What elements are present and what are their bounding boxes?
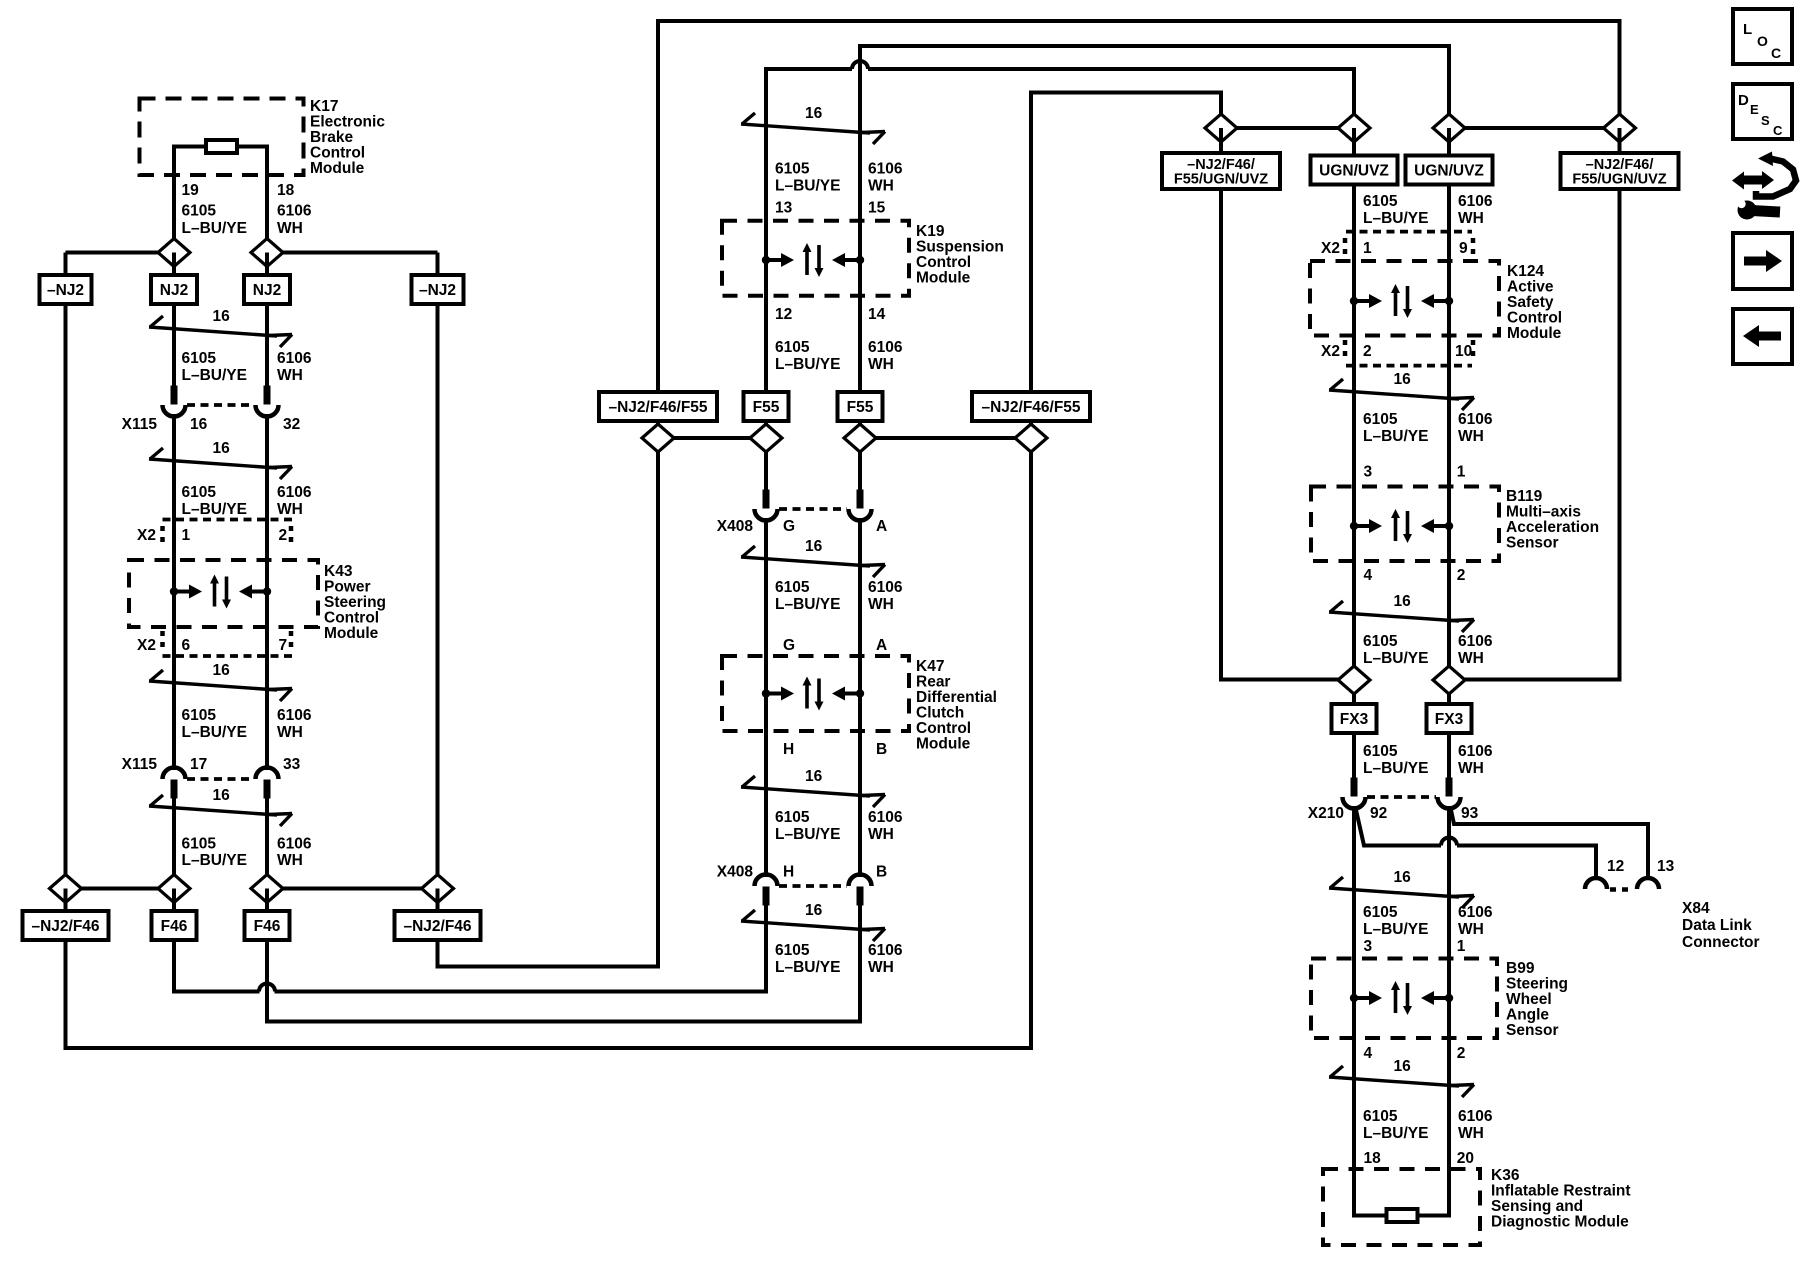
svg-text:16: 16 — [1394, 1058, 1412, 1075]
svg-text:Power: Power — [324, 579, 371, 596]
svg-text:33: 33 — [283, 756, 301, 773]
svg-text:2: 2 — [279, 527, 288, 544]
connector X408 pin A — [849, 490, 872, 521]
wire box stub F — [764, 421, 768, 502]
svg-text:Differential: Differential — [916, 689, 997, 706]
wire 6105 through K43 — [172, 560, 176, 627]
svg-text:F55: F55 — [847, 399, 874, 416]
svg-text:UGN/UVZ: UGN/UVZ — [1414, 163, 1484, 180]
wire label 6106 WH — [277, 484, 312, 518]
svg-text:17: 17 — [190, 756, 207, 773]
wire label 6105 L-BU/YE — [182, 836, 247, 870]
svg-text:Active: Active — [1507, 279, 1554, 296]
pin 3 label — [1364, 938, 1373, 955]
wire label 6106 WH — [277, 350, 312, 384]
svg-text:Module: Module — [1507, 325, 1562, 342]
wire stub to -NJ2/F46 right — [436, 889, 440, 913]
svg-text:6106: 6106 — [277, 350, 312, 367]
wire 6106 NJ2 to X115-32 — [265, 304, 269, 390]
net box NJ2 (6105) — [151, 275, 197, 304]
wire 6105 K43 to X115-17 — [172, 627, 176, 770]
module K124 name label — [1507, 263, 1562, 342]
module K36 Inflatable Restraint Sensing and Diagnostic Module (dashed box) — [1323, 1169, 1480, 1245]
pin 9 label — [1459, 240, 1468, 257]
pin B label — [876, 741, 887, 758]
wire 6106 through K43 — [265, 560, 269, 627]
svg-text:X2: X2 — [137, 527, 156, 544]
svg-text:A: A — [876, 637, 887, 654]
wire label 6106 WH — [868, 809, 903, 843]
wire gauge 16 marker — [1329, 371, 1474, 410]
svg-text:16: 16 — [805, 105, 823, 122]
wire 6105 through B119 — [1352, 487, 1356, 562]
terminating resistor inside K36 — [1387, 1209, 1418, 1222]
connector X84 pin 12 socket — [1585, 878, 1607, 889]
wire label 6105 L-BU/YE — [775, 579, 840, 613]
splice diamond -NJ2/F46/F55 left — [642, 424, 674, 452]
pin 1 label — [182, 527, 191, 544]
svg-text:6106: 6106 — [1458, 411, 1493, 428]
svg-text:L–BU/YE: L–BU/YE — [775, 596, 840, 613]
pin H label — [783, 864, 794, 881]
wire box stub I — [1219, 128, 1223, 153]
connector X408 pin B — [849, 875, 872, 906]
svg-text:Sensor: Sensor — [1506, 1022, 1559, 1039]
wire gauge 16 marker — [741, 538, 885, 577]
svg-text:6105: 6105 — [182, 484, 217, 501]
connector X115 pin 16 — [163, 386, 186, 417]
svg-text:F55/UGN/UVZ: F55/UGN/UVZ — [1572, 171, 1666, 187]
wire label 6106 WH — [868, 942, 903, 976]
svg-text:WH: WH — [1458, 921, 1484, 938]
wire label 6105 L-BU/YE — [775, 161, 840, 195]
wire 6106 through B99 — [1447, 959, 1451, 1039]
wire F46 6106 to X408-B — [267, 900, 860, 1022]
net box -NJ2 (far left) — [40, 275, 92, 304]
wire 6106 B99 to K36 — [1447, 1038, 1451, 1169]
net box UGN/UVZ (6105) — [1311, 156, 1398, 185]
wire 6105 K124 to B119 — [1352, 336, 1356, 487]
pin 2 label — [1457, 567, 1466, 584]
svg-text:3: 3 — [1364, 464, 1373, 481]
splice diamond -NJ2 right — [1604, 114, 1636, 142]
pin 4 label — [1364, 567, 1373, 584]
connector X84 dashed mating line — [1610, 887, 1634, 892]
connector X84 pin 13 socket — [1637, 878, 1659, 889]
wire label 6105 L-BU/YE — [182, 484, 247, 518]
net box F46 (6105) — [152, 911, 197, 940]
svg-text:WH: WH — [868, 826, 894, 843]
svg-text:WH: WH — [1458, 760, 1484, 777]
connector X2 label — [1321, 240, 1340, 257]
pin 19 label — [182, 182, 200, 199]
net box -NJ2/F46/F55/UGN/UVZ (right) — [1561, 153, 1679, 189]
svg-text:Brake: Brake — [310, 129, 353, 146]
module B119 Multi-axis Acceleration Sensor (dashed box) — [1311, 487, 1499, 562]
wire gauge 16 marker — [1329, 1058, 1474, 1097]
svg-text:WH: WH — [1458, 428, 1484, 445]
svg-text:32: 32 — [283, 416, 300, 433]
svg-text:X210: X210 — [1308, 805, 1344, 822]
legend LOC button — [1733, 9, 1792, 64]
net box -NJ2/F46 (far left) — [23, 911, 109, 940]
connector X115 dashed mating line — [187, 777, 254, 781]
pin 10 label — [1455, 343, 1472, 360]
module K47 name label — [916, 658, 997, 753]
wire gauge 16 marker — [149, 787, 292, 826]
svg-text:C: C — [1773, 123, 1783, 138]
svg-text:16: 16 — [190, 416, 208, 433]
connector X408 dashed mating line — [779, 507, 847, 511]
connector X2 row (K124 top) — [1345, 232, 1473, 256]
svg-text:Clutch: Clutch — [916, 705, 964, 722]
svg-text:Wheel: Wheel — [1506, 991, 1552, 1008]
wire label 6105 L-BU/YE — [182, 707, 247, 741]
connector X2 label — [137, 527, 156, 544]
svg-text:Module: Module — [310, 160, 365, 177]
svg-text:12: 12 — [775, 306, 792, 323]
wire label 6106 WH — [1458, 193, 1493, 227]
CAN transceiver symbol in K47 — [762, 677, 864, 711]
svg-text:14: 14 — [868, 306, 886, 323]
svg-text:–NJ2/F46: –NJ2/F46 — [31, 918, 99, 935]
svg-text:L–BU/YE: L–BU/YE — [1363, 760, 1428, 777]
svg-text:L–BU/YE: L–BU/YE — [1363, 428, 1428, 445]
wire 6106 K124 to B119 — [1447, 336, 1451, 487]
wire label 6106 WH — [1458, 411, 1493, 445]
svg-text:X2: X2 — [1321, 240, 1340, 257]
wire stub to F46 right — [265, 889, 269, 913]
wire K17 resistor left lead — [174, 145, 206, 149]
svg-text:–NJ2: –NJ2 — [419, 282, 456, 299]
svg-text:6105: 6105 — [182, 203, 217, 220]
splice diamond FX3 6105 — [1338, 666, 1370, 694]
svg-text:6106: 6106 — [868, 161, 903, 178]
svg-text:WH: WH — [277, 724, 303, 741]
pin 2 label — [1363, 343, 1372, 360]
svg-text:13: 13 — [1657, 858, 1675, 875]
wire bus left segment to -NJ2 — [66, 251, 175, 255]
wire gauge 16 marker — [1329, 593, 1474, 632]
module K19 name label — [916, 223, 1004, 287]
wire 6106 K43 to X115-33 — [265, 627, 269, 770]
svg-text:18: 18 — [1364, 1150, 1382, 1167]
wire gauge 16 marker — [149, 440, 292, 479]
svg-text:1: 1 — [1363, 240, 1372, 257]
connector X84 name label — [1682, 900, 1760, 951]
svg-text:20: 20 — [1457, 1150, 1474, 1167]
splice diamond UGN/UVZ 6106 — [1433, 114, 1465, 142]
net box FX3 (6105) — [1332, 704, 1377, 733]
wire diamond to FX3 box right — [1447, 694, 1451, 706]
wire label 6106 WH — [277, 203, 312, 238]
wire label 6106 WH — [277, 836, 312, 870]
svg-text:WH: WH — [277, 501, 303, 518]
net box F55 (6106) — [838, 392, 883, 421]
wire gauge 16 marker — [741, 768, 885, 807]
wire stub bus to -NJ2 right — [436, 253, 440, 277]
rail NJ2/F46/F55 top — [658, 21, 1620, 392]
connector X2 row (K124 bottom) — [1345, 340, 1473, 366]
svg-text:Steering: Steering — [324, 594, 386, 611]
svg-text:4: 4 — [1364, 567, 1373, 584]
wire 6105 X408 to K47 — [764, 518, 768, 656]
pin 1 label — [1363, 240, 1372, 257]
connector X2 label — [137, 637, 156, 654]
wire label 6105 L-BU/YE — [1363, 411, 1428, 445]
svg-text:Sensor: Sensor — [1506, 535, 1559, 552]
splice diamond F55 6106 — [844, 424, 876, 452]
module K19 Suspension Control Module (dashed box) — [722, 221, 909, 296]
svg-text:X115: X115 — [122, 756, 158, 773]
connector X408 dashed mating line — [779, 884, 847, 888]
wire 6105 X115 to F46 splice — [172, 796, 176, 889]
svg-text:K43: K43 — [324, 563, 353, 580]
wire 6106 X115 to K43 X2-2 — [265, 414, 269, 560]
svg-text:6105: 6105 — [1363, 1108, 1398, 1125]
svg-text:Safety: Safety — [1507, 294, 1554, 311]
svg-text:L–BU/YE: L–BU/YE — [182, 724, 247, 741]
svg-text:L–BU/YE: L–BU/YE — [1363, 1125, 1428, 1142]
svg-text:B99: B99 — [1506, 960, 1535, 977]
wire label 6105 L-BU/YE — [1363, 904, 1428, 938]
wire F46 6105 to X408-H — [174, 900, 766, 992]
svg-text:L–BU/YE: L–BU/YE — [1363, 921, 1428, 938]
svg-text:16: 16 — [1394, 371, 1412, 388]
svg-text:Multi–axis: Multi–axis — [1506, 504, 1581, 521]
svg-text:6105: 6105 — [775, 942, 810, 959]
pin B label — [876, 864, 887, 881]
svg-text:WH: WH — [868, 596, 894, 613]
pin G label — [783, 637, 795, 654]
svg-text:12: 12 — [1607, 858, 1624, 875]
wire 6106 through B119 — [1447, 487, 1451, 562]
pin A label — [876, 637, 887, 654]
terminating resistor inside K17 — [206, 140, 237, 153]
module B99 Steering Wheel Angle Sensor (dashed box) — [1311, 959, 1497, 1039]
module K43 name label — [324, 563, 386, 642]
svg-text:WH: WH — [277, 367, 303, 384]
wire -NJ2 right long drop — [1449, 189, 1620, 680]
svg-text:WH: WH — [1458, 210, 1484, 227]
wire label 6105 L-BU/YE — [1363, 743, 1428, 777]
connector X115 label — [122, 416, 158, 433]
rail -NJ2/F46/F55 right top — [1031, 93, 1221, 422]
svg-text:F55/UGN/UVZ: F55/UGN/UVZ — [1174, 171, 1268, 187]
svg-text:Module: Module — [324, 625, 379, 642]
svg-text:6105: 6105 — [1363, 743, 1398, 760]
wire box stub H — [1029, 421, 1033, 438]
pin G label — [783, 518, 795, 535]
svg-text:WH: WH — [277, 852, 303, 869]
pin 12 label — [775, 306, 792, 323]
svg-text:6105: 6105 — [1363, 633, 1398, 650]
connector X115 pin 17 — [163, 768, 186, 799]
svg-text:6106: 6106 — [1458, 743, 1493, 760]
wire 6105 B99 to K36 — [1352, 1038, 1356, 1169]
svg-text:92: 92 — [1370, 805, 1387, 822]
wire branch 92 to X84-12 — [1356, 810, 1596, 877]
svg-text:E: E — [1750, 102, 1759, 117]
pin 3 label — [1364, 464, 1373, 481]
svg-text:15: 15 — [868, 200, 886, 217]
svg-text:6106: 6106 — [277, 203, 312, 220]
svg-text:6105: 6105 — [775, 809, 810, 826]
svg-text:6106: 6106 — [868, 942, 903, 959]
module K43 Power Steering Control Module (dashed box) — [129, 560, 318, 627]
wire -NJ2 right drop — [438, 304, 659, 967]
svg-text:6105: 6105 — [182, 350, 217, 367]
wire 6106 X408 to K47 — [858, 518, 862, 656]
connector X408 pin H — [755, 875, 778, 906]
wire 6106 X115 to F46 splice — [265, 796, 269, 889]
svg-text:O: O — [1757, 33, 1768, 49]
wire K17 pin 19 drop (6105) — [172, 145, 176, 253]
pin 15 label — [868, 200, 886, 217]
svg-text:C: C — [1771, 45, 1781, 61]
svg-text:Sensing and: Sensing and — [1491, 1198, 1583, 1215]
pin 33 label — [283, 756, 301, 773]
svg-text:L–BU/YE: L–BU/YE — [182, 220, 247, 237]
svg-text:–NJ2/F46: –NJ2/F46 — [403, 918, 471, 935]
pin 92 label — [1370, 805, 1387, 822]
wire label 6106 WH — [1458, 904, 1493, 938]
svg-text:L: L — [1743, 21, 1752, 38]
svg-text:16: 16 — [805, 538, 823, 555]
wire box stub L — [1618, 128, 1622, 153]
wire X210-92 down — [1352, 806, 1356, 959]
wire 6105 UGN/UVZ down — [1352, 185, 1356, 262]
svg-text:16: 16 — [805, 902, 823, 919]
wire bottom bus left — [66, 887, 175, 891]
svg-text:X408: X408 — [717, 518, 754, 535]
svg-text:B: B — [876, 864, 887, 881]
pin 13 label — [775, 200, 793, 217]
svg-text:L–BU/YE: L–BU/YE — [775, 959, 840, 976]
svg-text:FX3: FX3 — [1340, 711, 1369, 728]
svg-text:2: 2 — [1457, 1045, 1466, 1062]
net box -NJ2/F46/F55/UGN/UVZ (left) — [1162, 153, 1280, 189]
wire label 6105 L-BU/YE — [775, 339, 840, 373]
rail F55 6106 top — [860, 46, 1449, 392]
connector X210 pin 93 — [1438, 778, 1461, 809]
svg-text:Control: Control — [1507, 310, 1562, 327]
svg-text:G: G — [783, 637, 795, 654]
wire gauge 16 marker — [741, 105, 885, 144]
wire K36 pin 20 lead — [1417, 1169, 1449, 1216]
svg-text:6105: 6105 — [1363, 904, 1398, 921]
svg-text:6105: 6105 — [775, 579, 810, 596]
svg-text:K19: K19 — [916, 223, 945, 240]
svg-text:Control: Control — [310, 145, 365, 162]
net box -NJ2/F46 (right) — [395, 911, 481, 940]
splice diamond FX3 6106 — [1433, 666, 1465, 694]
wire 6106 B119 to FX3 splice — [1447, 561, 1451, 680]
net box F55 (6105) — [744, 392, 789, 421]
svg-text:6106: 6106 — [1458, 904, 1493, 921]
wire label 6105 L-BU/YE — [182, 350, 247, 384]
svg-text:H: H — [783, 741, 794, 758]
svg-text:6105: 6105 — [182, 836, 217, 853]
wire label 6106 WH — [1458, 1108, 1493, 1142]
svg-text:Module: Module — [916, 736, 971, 753]
connector X408 pin G — [755, 490, 778, 521]
svg-text:1: 1 — [182, 527, 191, 544]
module K17 Electronic Brake Control Module (dashed box) — [140, 99, 304, 176]
svg-text:L–BU/YE: L–BU/YE — [775, 826, 840, 843]
pin 2 label — [279, 527, 288, 544]
wire 6105 NJ2 to X115-16 — [172, 304, 176, 390]
legend forward-arrow button — [1733, 233, 1792, 289]
CAN transceiver symbol in B99 — [1350, 981, 1453, 1015]
svg-text:–NJ2/F46/F55: –NJ2/F46/F55 — [608, 399, 707, 416]
legend hand/double-arrow icon — [1732, 152, 1796, 220]
svg-text:Control: Control — [916, 720, 971, 737]
connector X210 label — [1308, 805, 1344, 822]
net box -NJ2 (right) — [412, 275, 464, 304]
wire stub bus to NJ2 left — [172, 253, 176, 277]
svg-text:6105: 6105 — [775, 161, 810, 178]
splice diamond F55 6105 — [750, 424, 782, 452]
wire -NJ2 far-left drop — [66, 304, 1032, 1048]
splice diamond -NJ2/F46 right — [422, 875, 454, 903]
pin 18 label — [1364, 1150, 1382, 1167]
module K124 Active Safety Control Module (dashed box) — [1310, 261, 1499, 336]
CAN transceiver symbol in B119 — [1350, 509, 1453, 543]
svg-text:16: 16 — [213, 787, 231, 804]
connector X2 label — [1321, 343, 1340, 360]
connector X210 pin 92 — [1343, 778, 1366, 809]
pin 20 label — [1457, 1150, 1474, 1167]
wire label 6106 WH — [277, 707, 312, 741]
svg-text:L–BU/YE: L–BU/YE — [1363, 650, 1428, 667]
svg-text:F46: F46 — [161, 918, 188, 935]
svg-text:D: D — [1738, 92, 1749, 109]
svg-text:6: 6 — [182, 637, 191, 654]
wire 6106 K47 to X408-B — [858, 731, 862, 877]
svg-text:93: 93 — [1461, 805, 1479, 822]
svg-text:–NJ2: –NJ2 — [47, 282, 84, 299]
svg-text:6106: 6106 — [868, 579, 903, 596]
svg-text:16: 16 — [805, 768, 823, 785]
svg-text:K36: K36 — [1491, 1167, 1520, 1184]
wire stub to F46 left — [172, 889, 176, 913]
wire 6105 through K19 — [764, 69, 768, 392]
pin 13 label — [1657, 858, 1675, 875]
wire X210-93 down — [1447, 806, 1451, 959]
svg-text:6106: 6106 — [868, 809, 903, 826]
svg-text:WH: WH — [1458, 650, 1484, 667]
wire box stub E — [656, 421, 660, 438]
wire label 6106 WH — [868, 579, 903, 613]
wire box stub J — [1352, 128, 1356, 156]
svg-text:F46: F46 — [254, 918, 281, 935]
net box NJ2 (6106) — [244, 275, 290, 304]
svg-text:L–BU/YE: L–BU/YE — [775, 178, 840, 195]
module K47 Rear Differential Clutch Control Module (dashed box) — [722, 656, 909, 731]
pin 1 label — [1457, 464, 1466, 481]
svg-text:16: 16 — [213, 662, 231, 679]
svg-text:WH: WH — [868, 959, 894, 976]
connector X115 label — [122, 756, 158, 773]
svg-text:NJ2: NJ2 — [253, 282, 281, 299]
wire -NJ2 left long drop — [1221, 189, 1354, 680]
svg-text:Suspension: Suspension — [916, 239, 1004, 256]
wire label 6105 L-BU/YE — [775, 942, 840, 976]
svg-text:Steering: Steering — [1506, 976, 1568, 993]
wire stub bus to NJ2 right — [265, 253, 269, 277]
svg-text:Diagnostic Module: Diagnostic Module — [1491, 1214, 1629, 1231]
